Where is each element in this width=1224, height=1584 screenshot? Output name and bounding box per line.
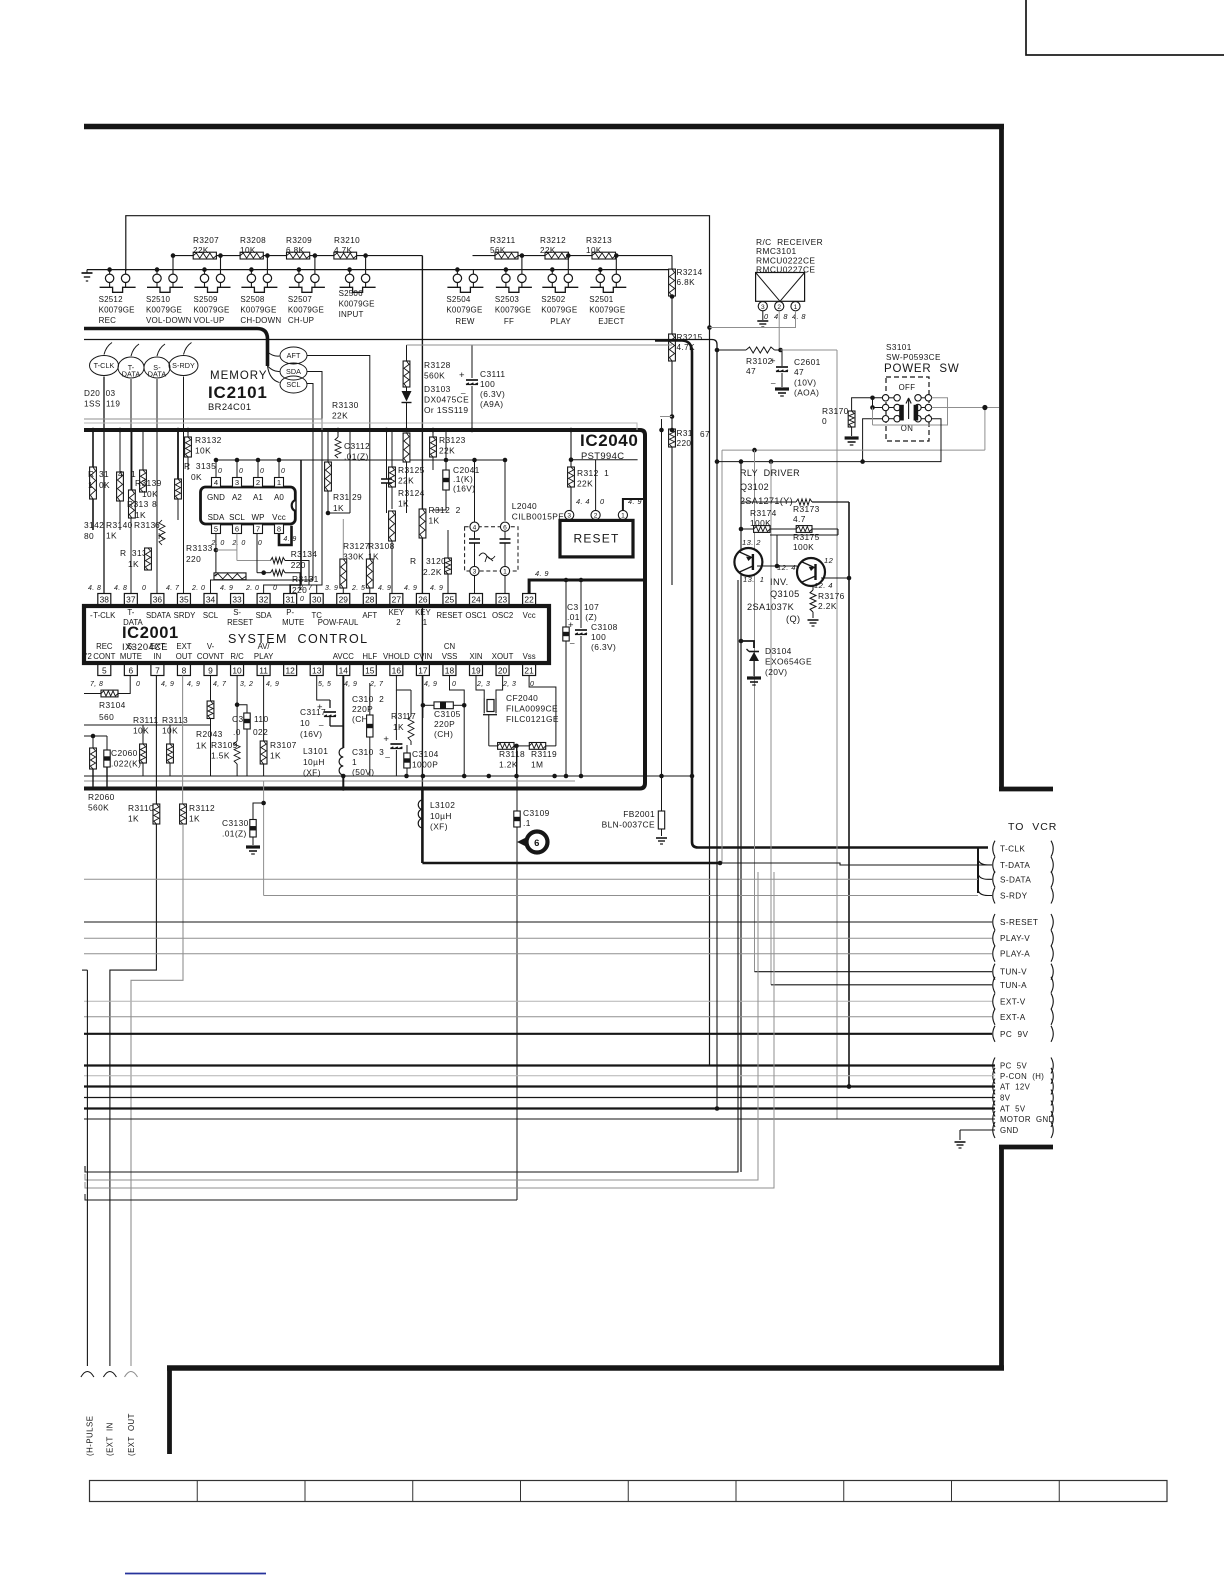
svg-text:10K: 10K <box>133 725 149 735</box>
svg-text:CF2040: CF2040 <box>506 693 538 703</box>
svg-text:D3103: D3103 <box>424 384 451 394</box>
svg-text:+: + <box>770 356 776 367</box>
svg-text:33: 33 <box>232 595 242 605</box>
svg-text:R3104: R3104 <box>99 700 126 710</box>
svg-text:L3101: L3101 <box>303 746 328 756</box>
svg-text:4. 9: 4. 9 <box>283 536 296 543</box>
svg-text:S2506: S2506 <box>339 289 363 298</box>
svg-text:R31: R31 <box>333 492 350 502</box>
svg-text:K0079GE: K0079GE <box>146 306 182 315</box>
svg-text:20: 20 <box>498 666 508 676</box>
svg-text:PLAY: PLAY <box>254 652 274 661</box>
svg-text:4. 8: 4. 8 <box>114 585 127 592</box>
svg-text:29: 29 <box>339 595 349 605</box>
svg-text:(AOA): (AOA) <box>794 388 819 398</box>
svg-text:C310 3: C310 3 <box>352 747 384 757</box>
svg-text:C3130: C3130 <box>222 818 249 828</box>
svg-text:+: + <box>317 702 323 713</box>
svg-text:17: 17 <box>418 666 428 676</box>
svg-text:C3108: C3108 <box>591 622 618 632</box>
svg-text:10K: 10K <box>195 445 211 455</box>
svg-text:1K: 1K <box>135 510 146 520</box>
svg-text:D3104: D3104 <box>765 646 792 656</box>
svg-text:25: 25 <box>445 595 455 605</box>
svg-text:35: 35 <box>179 595 189 605</box>
svg-text:36: 36 <box>153 595 163 605</box>
svg-text:31: 31 <box>99 469 109 479</box>
svg-text:_: _ <box>384 749 390 758</box>
svg-text:0: 0 <box>273 585 277 592</box>
svg-text:6: 6 <box>534 838 540 849</box>
svg-text:SDA: SDA <box>286 367 301 376</box>
svg-text:22: 22 <box>524 595 534 605</box>
svg-text:220: 220 <box>677 439 692 448</box>
svg-text:R31: R31 <box>677 429 693 438</box>
svg-text:R3208: R3208 <box>240 236 266 245</box>
svg-text:7: 7 <box>155 666 160 676</box>
svg-text:P-: P- <box>286 608 294 617</box>
svg-text:EXT-A: EXT-A <box>1000 1013 1026 1022</box>
svg-text:R3170: R3170 <box>822 406 849 416</box>
svg-text:.022(K): .022(K) <box>111 758 141 768</box>
svg-text:AFT: AFT <box>287 351 301 360</box>
svg-text:R3109: R3109 <box>211 740 238 750</box>
svg-text:27: 27 <box>392 595 402 605</box>
svg-text:31: 31 <box>285 595 295 605</box>
svg-text:28: 28 <box>365 595 375 605</box>
svg-text:4, 9: 4, 9 <box>266 681 279 688</box>
svg-text:C3 107: C3 107 <box>567 602 599 612</box>
svg-text:2: 2 <box>396 618 400 627</box>
svg-text:15: 15 <box>365 666 375 676</box>
svg-text:IC2101: IC2101 <box>208 383 268 402</box>
svg-text:11: 11 <box>259 666 268 676</box>
svg-text:67: 67 <box>700 430 710 439</box>
svg-text:9: 9 <box>208 666 213 676</box>
svg-text:(CH): (CH) <box>434 729 453 739</box>
svg-text:(10V): (10V) <box>794 377 816 387</box>
svg-text:OSC1: OSC1 <box>465 611 486 620</box>
svg-text:16: 16 <box>392 666 402 676</box>
svg-text:S2512: S2512 <box>99 295 123 304</box>
svg-text:R3118: R3118 <box>499 749 525 759</box>
svg-text:_: _ <box>569 635 575 644</box>
svg-text:WP: WP <box>251 513 264 522</box>
svg-text:R3123: R3123 <box>439 435 466 445</box>
svg-text:80: 80 <box>84 531 94 541</box>
svg-text:PC 9V: PC 9V <box>1000 1030 1028 1039</box>
svg-text:S2504: S2504 <box>446 295 470 304</box>
svg-text:R3108: R3108 <box>368 541 395 551</box>
svg-text:TUN-A: TUN-A <box>1000 981 1027 990</box>
svg-text:4: 4 <box>118 469 123 479</box>
svg-text:OUT: OUT <box>176 652 193 661</box>
svg-text:R3128: R3128 <box>424 360 451 370</box>
svg-text:1M: 1M <box>531 759 543 769</box>
svg-text:C2601: C2601 <box>794 357 821 367</box>
svg-text:R312 1: R312 1 <box>577 468 609 478</box>
svg-text:23: 23 <box>498 595 508 605</box>
svg-text:7: 7 <box>256 525 260 534</box>
svg-text:560: 560 <box>99 712 114 722</box>
svg-text:KEY: KEY <box>389 608 405 617</box>
svg-text:1: 1 <box>503 569 507 576</box>
svg-text:PLAY: PLAY <box>550 317 571 326</box>
svg-text:RESET: RESET <box>573 532 619 546</box>
svg-text:_: _ <box>460 385 466 394</box>
svg-text:R3214: R3214 <box>677 268 703 277</box>
svg-text:MEMORY: MEMORY <box>210 370 268 382</box>
svg-text:5: 5 <box>214 525 218 534</box>
svg-text:K0079GE: K0079GE <box>339 300 375 309</box>
svg-text:AT 12V: AT 12V <box>1000 1083 1031 1092</box>
svg-text:12. 4: 12. 4 <box>777 563 796 572</box>
svg-text:100K: 100K <box>793 542 814 552</box>
svg-text:220: 220 <box>291 560 306 570</box>
svg-text:IC2001: IC2001 <box>122 624 179 642</box>
svg-text:OFF: OFF <box>899 383 916 392</box>
svg-text:S-RESET: S-RESET <box>1000 918 1038 927</box>
svg-text:SCL: SCL <box>229 513 245 522</box>
svg-text:4: 4 <box>473 524 477 531</box>
svg-text:K0079GE: K0079GE <box>99 306 135 315</box>
svg-text:MUTE: MUTE <box>282 618 304 627</box>
svg-text:8: 8 <box>152 499 157 509</box>
svg-text:C3111: C3111 <box>480 369 505 379</box>
svg-text:3120: 3120 <box>426 556 446 566</box>
svg-text:R3175: R3175 <box>793 532 820 542</box>
svg-text:4. 8: 4. 8 <box>792 312 806 321</box>
svg-text:P-CON (H): P-CON (H) <box>1000 1072 1044 1081</box>
svg-text:4, 7: 4, 7 <box>213 681 227 688</box>
svg-text:EXT: EXT <box>176 642 191 651</box>
svg-text:2: 2 <box>777 304 781 311</box>
svg-text:6: 6 <box>235 525 239 534</box>
svg-text:1.5K: 1.5K <box>211 750 230 760</box>
svg-text:2.2K: 2.2K <box>818 601 837 611</box>
svg-text:47: 47 <box>794 367 804 377</box>
svg-text:EXT-V: EXT-V <box>1000 997 1026 1006</box>
svg-text:2: 2 <box>256 478 260 487</box>
svg-text:6.8K: 6.8K <box>677 278 696 287</box>
svg-text:R3119: R3119 <box>531 749 557 759</box>
svg-text:A0: A0 <box>274 493 284 502</box>
svg-text:MUTE: MUTE <box>120 652 142 661</box>
svg-text:INPUT: INPUT <box>339 310 364 319</box>
svg-text:0: 0 <box>764 312 769 321</box>
svg-text:2, 3: 2, 3 <box>502 681 516 688</box>
svg-text:6: 6 <box>503 524 507 531</box>
svg-text:R: R <box>410 556 416 566</box>
svg-text:R3132: R3132 <box>195 435 222 445</box>
svg-text:FILC0121GE: FILC0121GE <box>506 714 559 724</box>
svg-text:30: 30 <box>312 595 322 605</box>
svg-text:K0079GE: K0079GE <box>446 306 482 315</box>
svg-text:(6.3V): (6.3V) <box>591 642 616 652</box>
svg-text:1SS 119: 1SS 119 <box>84 399 120 408</box>
svg-text:K0079GE: K0079GE <box>194 306 230 315</box>
svg-text:L3102: L3102 <box>430 800 455 810</box>
svg-text:4. 4: 4. 4 <box>576 497 590 506</box>
svg-text:BLN-0037CE: BLN-0037CE <box>602 820 655 830</box>
svg-text:34: 34 <box>206 595 216 605</box>
svg-text:5: 5 <box>102 666 107 676</box>
svg-text:SCL: SCL <box>286 380 300 389</box>
svg-text:10K: 10K <box>240 246 256 255</box>
svg-text:2. 5: 2. 5 <box>351 585 365 592</box>
svg-text:38: 38 <box>100 595 110 605</box>
svg-text:R3112: R3112 <box>189 803 215 813</box>
svg-text:S2507: S2507 <box>288 295 312 304</box>
svg-text:4. 9: 4. 9 <box>430 585 443 592</box>
svg-text:(16V): (16V) <box>300 729 322 739</box>
svg-text:HLF: HLF <box>362 652 377 661</box>
svg-text:4, 9: 4, 9 <box>344 681 357 688</box>
svg-text:1: 1 <box>621 513 625 520</box>
svg-text:1K: 1K <box>128 813 139 823</box>
svg-text:1000P: 1000P <box>412 759 438 769</box>
svg-text:.01(Z): .01(Z) <box>222 828 247 838</box>
svg-text:R312 2: R312 2 <box>429 505 461 515</box>
svg-text:10µH: 10µH <box>303 757 325 767</box>
svg-text:REC: REC <box>96 642 113 651</box>
svg-text:Vcc: Vcc <box>272 513 286 522</box>
svg-text:4. 9: 4. 9 <box>404 585 417 592</box>
svg-text:DATA: DATA <box>148 370 167 379</box>
svg-text:(Q): (Q) <box>786 614 800 624</box>
svg-text:K0079GE: K0079GE <box>589 306 625 315</box>
svg-text:.1: .1 <box>523 818 531 828</box>
svg-text:100: 100 <box>480 379 495 389</box>
svg-text:.01 (Z): .01 (Z) <box>567 612 597 622</box>
svg-text:C3: C3 <box>232 714 244 724</box>
svg-text:VSS: VSS <box>442 652 458 661</box>
svg-text:14: 14 <box>339 666 349 676</box>
svg-text:SW-P0593CE: SW-P0593CE <box>886 353 941 362</box>
svg-text:CONT: CONT <box>93 652 115 661</box>
svg-text:R3127: R3127 <box>343 541 370 551</box>
svg-text:6: 6 <box>155 520 160 530</box>
svg-text:3, 2: 3, 2 <box>240 681 253 688</box>
svg-text:T-: T- <box>127 608 134 617</box>
svg-text:4. 9: 4. 9 <box>378 585 391 592</box>
svg-text:1K: 1K <box>429 515 440 525</box>
svg-text:560K: 560K <box>424 370 445 380</box>
svg-text:R3212: R3212 <box>540 236 566 245</box>
svg-text:RESET: RESET <box>227 618 253 627</box>
svg-text:R3110: R3110 <box>128 803 154 813</box>
svg-text:0K: 0K <box>191 472 202 482</box>
svg-text:R2060: R2060 <box>88 792 115 802</box>
svg-text:32: 32 <box>259 595 269 605</box>
svg-text:21: 21 <box>524 666 534 676</box>
svg-text:SRDY: SRDY <box>174 611 196 620</box>
svg-text:1K: 1K <box>270 750 281 760</box>
svg-text:(6.3V): (6.3V) <box>480 389 505 399</box>
svg-text:REC: REC <box>99 316 117 325</box>
svg-text:1: 1 <box>277 478 281 487</box>
svg-text:18: 18 <box>445 666 455 676</box>
svg-text:12. 4: 12. 4 <box>814 581 833 590</box>
svg-text:(50V): (50V) <box>352 767 374 777</box>
svg-text:6.8K: 6.8K <box>286 246 305 255</box>
svg-text:220P: 220P <box>434 719 455 729</box>
svg-text:S-: S- <box>127 642 135 651</box>
svg-text:R3134: R3134 <box>291 549 318 559</box>
svg-text:0: 0 <box>136 681 140 688</box>
svg-text:4, 9: 4, 9 <box>424 681 437 688</box>
svg-text:4, 9: 4, 9 <box>161 681 174 688</box>
svg-text:INV.: INV. <box>770 577 789 587</box>
svg-text:PLAY-V: PLAY-V <box>1000 934 1030 943</box>
svg-text:AFT: AFT <box>362 611 377 620</box>
svg-text:0: 0 <box>281 468 285 475</box>
svg-text:GND: GND <box>1000 1126 1019 1135</box>
svg-text:R3211: R3211 <box>490 236 516 245</box>
svg-text:(A9A): (A9A) <box>480 399 503 409</box>
svg-text:0: 0 <box>452 681 456 688</box>
svg-text:AT 5V: AT 5V <box>1000 1105 1026 1114</box>
svg-text:2. 0: 2. 0 <box>231 540 245 547</box>
svg-text:AVCC: AVCC <box>333 652 354 661</box>
svg-text:100: 100 <box>591 632 606 642</box>
svg-text:10µH: 10µH <box>430 811 452 821</box>
svg-text:R: R <box>88 469 94 479</box>
svg-text:CH-UP: CH-UP <box>288 316 314 325</box>
svg-text:S-: S- <box>233 608 241 617</box>
svg-text:S2509: S2509 <box>194 295 218 304</box>
svg-text:1K: 1K <box>128 559 139 569</box>
svg-text:T-DATA: T-DATA <box>1000 861 1030 870</box>
svg-text:1K: 1K <box>398 498 409 508</box>
svg-text:22K: 22K <box>332 410 348 420</box>
svg-text:2, 3: 2, 3 <box>476 681 490 688</box>
svg-text:POW-FAUL: POW-FAUL <box>318 618 359 627</box>
svg-text:4. 9: 4. 9 <box>220 585 233 592</box>
svg-text:TUN-V: TUN-V <box>1000 968 1027 977</box>
svg-text:0: 0 <box>260 468 264 475</box>
svg-text:S2510: S2510 <box>146 295 170 304</box>
svg-text:BR24C01: BR24C01 <box>208 401 251 412</box>
svg-text:(16V): (16V) <box>453 483 475 493</box>
svg-text:C3105: C3105 <box>434 709 461 719</box>
svg-text:FF: FF <box>504 317 514 326</box>
svg-text:022: 022 <box>253 727 268 737</box>
svg-text:1K: 1K <box>196 741 207 751</box>
svg-text:R 3135: R 3135 <box>184 461 216 471</box>
svg-text:1K: 1K <box>333 503 344 513</box>
svg-text:1: 1 <box>352 757 357 767</box>
svg-text:Vcc: Vcc <box>523 611 536 620</box>
svg-text:CH-DOWN: CH-DOWN <box>240 316 281 325</box>
svg-text:22K: 22K <box>540 246 556 255</box>
svg-text:EJECT: EJECT <box>598 317 624 326</box>
svg-text:2. 7: 2. 7 <box>298 585 313 592</box>
svg-text:4. 7: 4. 7 <box>166 585 180 592</box>
svg-text:SDATA: SDATA <box>146 611 172 620</box>
svg-text:K0079GE: K0079GE <box>541 306 577 315</box>
svg-text:3142: 3142 <box>84 520 104 530</box>
svg-text:REW: REW <box>455 317 475 326</box>
svg-text:0: 0 <box>218 468 222 475</box>
svg-text:5, 5: 5, 5 <box>318 681 331 688</box>
svg-text:1: 1 <box>794 304 798 311</box>
svg-text:8V: 8V <box>1000 1094 1011 1103</box>
svg-text:10K: 10K <box>586 246 602 255</box>
svg-text:12: 12 <box>285 666 295 676</box>
svg-text:VOL-DOWN: VOL-DOWN <box>146 316 192 325</box>
svg-text:_: _ <box>770 375 776 384</box>
svg-text:19: 19 <box>471 666 481 676</box>
svg-text:K0079GE: K0079GE <box>288 306 324 315</box>
svg-text:1K: 1K <box>393 722 404 732</box>
svg-text:S-RDY: S-RDY <box>172 361 195 370</box>
svg-text:MOTOR GND: MOTOR GND <box>1000 1115 1055 1124</box>
svg-text:R3131: R3131 <box>292 574 319 584</box>
svg-text:VOL-UP: VOL-UP <box>194 316 225 325</box>
svg-text:3: 3 <box>567 513 571 520</box>
svg-text:CVIN: CVIN <box>414 652 433 661</box>
svg-text:3: 3 <box>473 569 477 576</box>
svg-text:R3210: R3210 <box>334 236 360 245</box>
svg-text:C2060: C2060 <box>111 748 138 758</box>
svg-text:C310 2: C310 2 <box>352 694 384 704</box>
svg-text:(XF): (XF) <box>303 768 321 778</box>
svg-text:C3112: C3112 <box>344 441 370 451</box>
svg-text:R3125: R3125 <box>398 465 425 475</box>
svg-text:L2040: L2040 <box>512 501 537 511</box>
svg-text:SCL: SCL <box>203 611 219 620</box>
svg-text:A1: A1 <box>253 493 263 502</box>
svg-text:S2502: S2502 <box>541 295 565 304</box>
svg-text:0: 0 <box>258 540 262 547</box>
svg-text:26: 26 <box>418 595 428 605</box>
svg-text:R3107: R3107 <box>270 740 297 750</box>
svg-text:POWER SW: POWER SW <box>884 363 960 375</box>
svg-text:T-CLK: T-CLK <box>93 611 116 620</box>
svg-text:4: 4 <box>214 478 218 487</box>
svg-text:4. 9: 4. 9 <box>535 569 549 578</box>
svg-text:Vss: Vss <box>523 652 536 661</box>
svg-text:R3139: R3139 <box>135 478 162 488</box>
svg-text:R3124: R3124 <box>398 488 425 498</box>
svg-text:Or 1SS119: Or 1SS119 <box>424 405 468 415</box>
svg-text:XIN: XIN <box>470 652 483 661</box>
svg-text:+: + <box>383 734 389 745</box>
svg-text:4.7: 4.7 <box>793 514 806 524</box>
svg-text:+: + <box>459 370 465 381</box>
svg-text:3: 3 <box>761 304 765 311</box>
svg-text:4. 8: 4. 8 <box>88 585 101 592</box>
svg-text:0: 0 <box>142 585 146 592</box>
svg-text:TO VCR: TO VCR <box>1008 821 1057 833</box>
svg-text:22K: 22K <box>577 478 593 488</box>
svg-text:13. 2: 13. 2 <box>742 538 761 547</box>
svg-text:220: 220 <box>186 554 201 564</box>
svg-text:2SA1037K: 2SA1037K <box>747 602 795 612</box>
svg-text:FB2001: FB2001 <box>623 809 655 819</box>
svg-text:13: 13 <box>312 666 322 676</box>
svg-text:6: 6 <box>129 666 134 676</box>
svg-text:47: 47 <box>746 366 756 376</box>
svg-text:8: 8 <box>277 525 281 534</box>
svg-text:1K: 1K <box>106 530 117 540</box>
svg-text:COVNT: COVNT <box>197 652 225 661</box>
svg-text:10: 10 <box>232 666 242 676</box>
svg-text:R313: R313 <box>134 520 156 530</box>
svg-text:KEY: KEY <box>415 608 431 617</box>
svg-text:R3133: R3133 <box>186 543 213 553</box>
